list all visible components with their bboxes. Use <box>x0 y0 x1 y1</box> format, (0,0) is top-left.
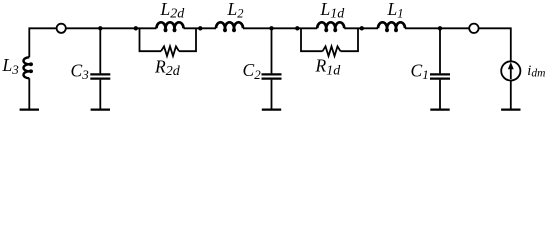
svg-text:L1d: L1d <box>320 0 346 22</box>
svg-text:L3: L3 <box>2 55 20 77</box>
svg-text:L2: L2 <box>227 0 244 21</box>
svg-text:L1: L1 <box>387 0 404 21</box>
svg-text:R2d: R2d <box>154 56 181 79</box>
svg-text:idm: idm <box>527 63 545 80</box>
svg-text:C2: C2 <box>243 60 262 82</box>
svg-text:R1d: R1d <box>315 56 342 79</box>
svg-text:C3: C3 <box>71 60 90 82</box>
svg-text:C1: C1 <box>411 60 429 82</box>
svg-text:L2d: L2d <box>160 0 186 22</box>
